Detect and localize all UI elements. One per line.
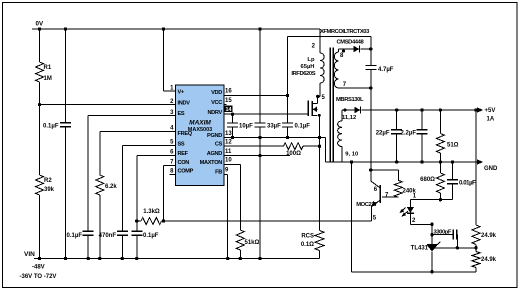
resistor RCS 0.1ohm <box>301 231 324 259</box>
resistor R5 100ohm <box>284 143 320 157</box>
node junction VIN rail x=260 <box>258 257 261 260</box>
svg-text:3300pF: 3300pF <box>434 230 452 236</box>
node 0V label <box>36 21 44 28</box>
svg-text:VCC: VCC <box>211 100 222 106</box>
node junction VIN rail x=99.8 <box>98 257 101 260</box>
node junction pin7/C8 <box>369 86 372 89</box>
node junction out/divider <box>474 108 477 111</box>
node VIN label <box>24 251 35 258</box>
svg-text:0.1µF: 0.1µF <box>43 124 59 130</box>
node junction AGND <box>258 154 261 157</box>
capacitor C12 3300pF <box>432 230 457 248</box>
node junction bootstrap cathode <box>369 47 372 50</box>
capacitor C2 0.1uF on ES <box>67 231 94 258</box>
svg-text:15: 15 <box>225 98 232 104</box>
node junction GND/C10 <box>420 160 423 163</box>
wire TL431 cathode riser <box>431 224 433 244</box>
svg-text:-48V: -48V <box>32 265 45 271</box>
svg-text:R2: R2 <box>44 178 52 184</box>
wire LED light arrows <box>399 208 408 217</box>
node phasing dot secondary <box>344 109 347 112</box>
svg-text:33µF: 33µF <box>267 124 281 130</box>
svg-text:10µF: 10µF <box>239 124 253 130</box>
node junction PGND/C7 <box>286 136 289 139</box>
capacitor C1 0.1uF input <box>43 29 71 259</box>
svg-text:R1: R1 <box>44 65 52 71</box>
node junction PGND/source <box>318 136 321 139</box>
wire V+ to 0V rail <box>164 29 176 91</box>
node junction 3300pF tap <box>430 233 433 236</box>
node junction source <box>318 114 321 117</box>
wire FB pin9 <box>224 174 228 258</box>
svg-text:Lp: Lp <box>307 57 315 63</box>
svg-text:-36V TO -72V: -36V TO -72V <box>20 274 57 280</box>
wire CS pin12 <box>224 145 284 147</box>
resistor R1 1M <box>36 29 52 105</box>
wire FREQ pin4 <box>100 132 176 176</box>
diode U2 optocoupler LED pins 1-2 <box>407 194 441 225</box>
node junction 0V/C33u <box>258 27 261 30</box>
node GND output arrow <box>477 159 498 172</box>
node junction R9/LED <box>439 198 442 201</box>
svg-text:MOC217: MOC217 <box>356 202 377 208</box>
svg-text:14: 14 <box>226 107 232 113</box>
svg-text:51Ω: 51Ω <box>447 143 459 149</box>
wire CON to optocoupler emitter <box>164 220 372 222</box>
resistor R4 1.3k <box>137 209 164 225</box>
svg-text:MAXTON: MAXTON <box>200 160 223 166</box>
pin numbers left side U1 <box>170 85 174 174</box>
transformer T1 core <box>330 48 333 163</box>
node junction 0V/R1 <box>38 27 41 30</box>
resistor R8 240k <box>382 180 417 197</box>
wire source riser <box>319 115 321 230</box>
node junction 0V/V+ <box>162 27 165 30</box>
svg-text:1M: 1M <box>44 76 52 82</box>
wire ES pin3 <box>88 116 175 232</box>
svg-text:TL431: TL431 <box>411 246 429 252</box>
capacitor C4 33uF bulk <box>255 29 282 259</box>
node junction out/C9 <box>395 108 398 111</box>
node junction VIN rail x=240.3 <box>239 257 242 260</box>
resistor R6 51k <box>236 230 259 259</box>
node +5V output arrow <box>477 107 495 122</box>
node -36V TO -72V label <box>20 274 57 280</box>
capacitor C6 10uF <box>227 114 253 137</box>
wire AGND pin11 <box>224 155 290 157</box>
wire GND bus <box>326 161 478 163</box>
resistor R7 51ohm load <box>436 110 458 162</box>
svg-text:0.1Ω: 0.1Ω <box>301 242 314 248</box>
resistor R11 24.9k lower <box>472 248 497 272</box>
wire VDD pin16 <box>224 95 288 97</box>
wire NDRV pin14 to gate <box>224 113 308 115</box>
svg-text:4.7µF: 4.7µF <box>378 67 394 73</box>
svg-text:65µH: 65µH <box>301 64 315 70</box>
inductor T1 bootstrap winding pins 8-7 <box>334 49 370 88</box>
svg-text:16: 16 <box>225 89 232 95</box>
wire REF pin6 <box>137 155 176 221</box>
svg-text:11,12: 11,12 <box>342 115 356 121</box>
wire INDV line <box>40 104 176 106</box>
node junction VIN rail x=122.3 <box>121 257 124 260</box>
svg-text:470nF: 470nF <box>99 233 117 239</box>
svg-text:12: 12 <box>225 139 232 145</box>
node junction GND/C9 <box>395 160 398 163</box>
node junction GND/secondary <box>350 160 353 163</box>
resistor R10 24.9k upper <box>472 225 497 248</box>
svg-text:9, 10: 9, 10 <box>345 152 358 158</box>
diode D1 MBRS130L <box>336 97 477 114</box>
svg-text:13: 13 <box>225 131 232 137</box>
pin numbers right side U1 <box>225 89 232 174</box>
capacitor C10 2.2uF <box>401 110 428 162</box>
node junction VIN rail x=65.5 <box>64 257 67 260</box>
node junction bootstrap/240k/collector <box>369 168 372 171</box>
node junction GND/R7 <box>439 160 442 163</box>
svg-text:0.01µF: 0.01µF <box>459 181 476 187</box>
node phasing dot bootstrap <box>342 50 345 53</box>
capacitor C9 22uF <box>376 110 402 162</box>
svg-text:SS: SS <box>178 141 185 147</box>
node junction R1/R2/INDV <box>38 103 41 106</box>
svg-text:REF: REF <box>178 151 189 157</box>
svg-text:IRFD620S: IRFD620S <box>291 71 315 77</box>
svg-text:0.1µF: 0.1µF <box>143 233 159 239</box>
svg-text:0V: 0V <box>36 21 44 28</box>
svg-text:22µF: 22µF <box>376 131 390 137</box>
capacitor C8 4.7uF <box>365 49 393 88</box>
svg-text:RCS: RCS <box>301 234 314 240</box>
inductor T1 primary winding Lp <box>291 29 324 96</box>
node junction divider mid <box>474 246 477 249</box>
capacitor C7 0.1uF on VDD <box>282 96 310 138</box>
svg-text:0.1µF: 0.1µF <box>295 124 311 130</box>
wire SS pin5 <box>122 145 175 231</box>
svg-text:AGND: AGND <box>207 151 223 157</box>
wire collector bias line <box>371 170 399 180</box>
wire secondary ground riser <box>351 162 353 272</box>
op-amp U1 MAX5003 controller <box>176 85 225 185</box>
node junction NDRV/C6 <box>231 113 234 116</box>
node junction VIN rail x=88.2 <box>87 257 90 260</box>
wire bootstrap return to opto <box>370 88 372 170</box>
svg-text:COMP: COMP <box>178 169 194 175</box>
resistor R9 680ohm <box>420 162 444 200</box>
svg-text:CON: CON <box>178 160 190 166</box>
node junction 0V/C1 <box>64 27 67 30</box>
svg-text:CS: CS <box>215 142 223 148</box>
transformer T1 label <box>320 29 370 35</box>
svg-text:1.3kΩ: 1.3kΩ <box>143 209 160 215</box>
capacitor C5 0.1uF on REF <box>131 221 158 259</box>
wire divider riser <box>475 110 477 225</box>
svg-text:6.2k: 6.2k <box>105 184 117 190</box>
node junction GND/C11 <box>451 160 454 163</box>
node junction CS/source <box>318 145 321 148</box>
svg-text:24.9k: 24.9k <box>481 257 497 263</box>
svg-text:GND: GND <box>484 166 498 172</box>
node junction out/R7 <box>439 108 442 111</box>
svg-text:ES: ES <box>178 111 185 117</box>
node junction VDD <box>286 94 289 97</box>
svg-text:680Ω: 680Ω <box>420 177 435 183</box>
node junction PGND/C4 <box>258 136 261 139</box>
svg-text:NDRV: NDRV <box>207 110 222 116</box>
wire VDD to bootstrap diode <box>288 37 371 96</box>
node junction VIN rail x=227.7 <box>226 257 229 260</box>
svg-text:PGND: PGND <box>207 133 222 139</box>
svg-text:FREQ: FREQ <box>178 131 193 137</box>
svg-text:11: 11 <box>225 149 232 155</box>
node junction TL431 anode <box>430 270 433 273</box>
node junction drain pin5 <box>316 95 325 101</box>
svg-text:2.2µF: 2.2µF <box>401 131 417 137</box>
wire 0V rail <box>32 28 320 30</box>
svg-text:MAXIM: MAXIM <box>189 120 211 127</box>
svg-text:24.9k: 24.9k <box>481 233 497 239</box>
resistor R3 6.2k on FREQ <box>96 175 118 259</box>
svg-text:FB: FB <box>215 170 222 176</box>
svg-text:1A: 1A <box>487 117 495 123</box>
transistor U2 optocoupler MOC217 phototransistor <box>356 170 389 222</box>
node junction CON/1.3k <box>162 219 165 222</box>
resistor R2 39k <box>36 105 55 259</box>
transistor Q1 IRFD620S MOSFET <box>308 96 317 116</box>
wire CON pin7 <box>164 165 176 221</box>
wire bottom return bus <box>352 271 477 273</box>
node junction VIN rail x=136.8 <box>135 257 138 260</box>
svg-text:+5V: +5V <box>485 108 496 114</box>
wire MAXTON pin10 <box>224 165 240 231</box>
capacitor C3 470nF soft-start <box>99 231 128 258</box>
node -48V label <box>32 265 45 271</box>
node junction 3300pF/ref <box>456 246 459 249</box>
svg-text:39k: 39k <box>44 187 55 193</box>
node junction REF/1.3k <box>135 219 138 222</box>
diode D2 CMSD4448 <box>337 40 371 53</box>
inductor T1 secondary winding pins 11,12 - 9,10 <box>338 110 359 162</box>
op-amp U3 TL431 shunt regulator <box>411 242 476 272</box>
svg-text:51kΩ: 51kΩ <box>245 240 260 246</box>
node junction out/C10 <box>420 108 423 111</box>
svg-text:10: 10 <box>225 158 232 164</box>
pin 15 stub <box>224 104 227 106</box>
wire VIN rail <box>34 258 320 260</box>
svg-text:0.1µF: 0.1µF <box>67 233 83 239</box>
svg-text:MBRS130L: MBRS130L <box>336 97 364 103</box>
wire PGND pin13 <box>224 138 326 163</box>
svg-text:INDV: INDV <box>178 100 191 106</box>
node junction PGND/C6 <box>231 136 234 139</box>
node junction LED/TL431 <box>430 223 433 226</box>
pin 14 boxed number <box>224 106 232 114</box>
svg-text:VDD: VDD <box>211 90 222 96</box>
capacitor C11 0.01uF <box>440 162 476 200</box>
svg-text:V+: V+ <box>178 90 185 96</box>
pin 8 COMP stub <box>170 173 176 175</box>
svg-text:XFMRCOILTRCTX03: XFMRCOILTRCTX03 <box>320 29 370 35</box>
node junction VIN rail x=39.5 <box>38 257 41 260</box>
svg-text:CMSD4448: CMSD4448 <box>337 40 365 46</box>
svg-text:VIN: VIN <box>24 251 35 258</box>
